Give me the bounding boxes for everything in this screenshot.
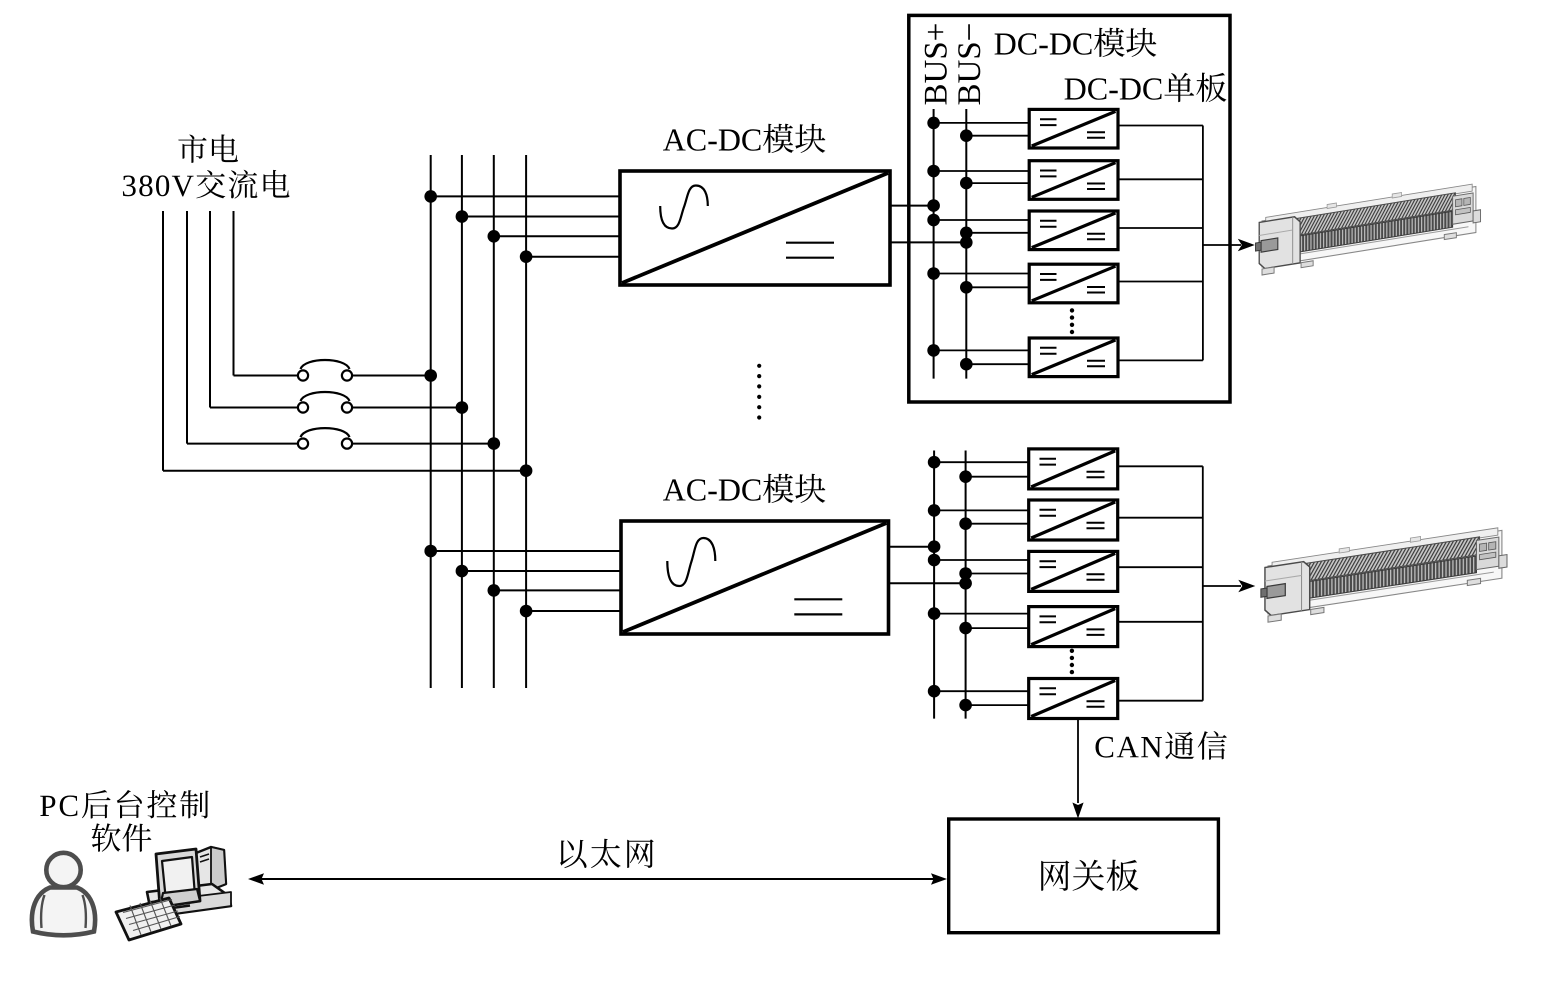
wire breaker 2 to bus B (352, 407, 462, 409)
wire AC-DC 1 output - to BUS- (890, 241, 966, 243)
wire BUS- to DC-DC unit 4 (bottom group) (966, 627, 1029, 629)
wire source L1 vertical (162, 211, 164, 471)
wire L4 to breaker 1 (234, 375, 298, 377)
wire AC-DC 2 output - to BUS- (889, 582, 966, 584)
DC-DC unit 3 (bottom group) box (1029, 551, 1118, 591)
DC-DC unit 4 (bottom group) box (1029, 607, 1118, 647)
arrowhead CAN into gateway (1072, 803, 1083, 819)
ellipsis more units bottom group (1070, 649, 1074, 675)
wire L2 to breaker 3 (187, 443, 298, 445)
wire BUS+ to DC-DC unit 1 (top group) (934, 122, 1030, 124)
DC-DC unit 1 (top group) box (1029, 109, 1118, 148)
junction BUS- unit 2 top group (960, 177, 973, 190)
wire source L3 vertical (209, 211, 211, 408)
wire breaker 1 to bus A (352, 375, 431, 377)
wire BUS- to DC-DC unit 1 (top group) (966, 135, 1029, 137)
bus N vertical (525, 155, 527, 688)
junction BUS+ AC-DC 1 feed (927, 199, 940, 212)
AC-DC module 1 AC sine symbol (660, 186, 708, 229)
wire BUS- to DC-DC unit 5 (bottom group) (966, 704, 1029, 706)
label DC-DC board (1065, 73, 1227, 103)
DC-DC unit 3 (top group) box (1029, 211, 1118, 250)
junction BUS+ unit 3 top group (927, 214, 940, 227)
junction BUS+ unit 1 bottom group (928, 456, 941, 469)
load bank device 2 (3D) (1261, 523, 1507, 623)
AC-DC module 1 DC bars (786, 243, 834, 258)
wire DC-DC unit 4 output (bottom group) (1118, 621, 1203, 623)
wire source L4 vertical (233, 211, 235, 376)
junction BUS+ unit 3 bottom group (928, 554, 941, 567)
DC-DC unit 2 (bottom group) box (1029, 500, 1118, 540)
wire BUS+ to DC-DC unit 3 (top group) (934, 219, 1030, 221)
junction BUS- unit 5 top group (960, 358, 973, 371)
junction BUS- unit 4 bottom group (959, 622, 972, 635)
AC-DC module 1 diagonal (622, 173, 888, 283)
AC-DC module 2 diagonal (623, 523, 887, 632)
junction bus C feed 1 (488, 230, 501, 243)
wire source L2 vertical (186, 211, 188, 444)
junction BUS- unit 2 bottom group (959, 517, 972, 530)
label AC-DC module 2 (663, 474, 825, 503)
ethernet wire (260, 878, 938, 880)
CAN wire down (1077, 719, 1079, 803)
junction bus B feed 2 (456, 565, 469, 578)
wire BUS- to DC-DC unit 2 (top group) (966, 182, 1029, 184)
junction bus C / breaker 3 (488, 437, 501, 450)
junction BUS+ unit 4 bottom group (928, 607, 941, 620)
wire BUS+ to DC-DC unit 5 (top group) (934, 349, 1030, 351)
junction BUS+ unit 5 top group (927, 344, 940, 357)
wire bus A to AC-DC 1 input 1 (431, 195, 620, 197)
breaker QF3 (298, 428, 352, 449)
wire bus B to AC-DC 1 input 2 (462, 216, 620, 218)
bus A vertical (430, 155, 432, 688)
junction BUS- unit 3 bottom group (959, 567, 972, 580)
junction BUS- unit 1 bottom group (959, 470, 972, 483)
label CAN bus (1096, 731, 1227, 760)
output wire to load bank 1 (1203, 244, 1241, 246)
computer icon (116, 847, 231, 940)
wire BUS- to DC-DC unit 5 (top group) (966, 363, 1029, 365)
junction bus A feed 2 (424, 545, 437, 558)
wire bus N to AC-DC 1 input 4 (526, 256, 620, 258)
wire BUS- to DC-DC unit 2 (bottom group) (966, 523, 1029, 525)
output wire to load bank 2 (1203, 585, 1241, 587)
label BUS+ (925, 24, 947, 104)
wire BUS- to DC-DC unit 1 (bottom group) (966, 476, 1029, 478)
junction bus B feed 1 (456, 210, 469, 223)
DC-DC module outer box (909, 15, 1230, 402)
junction BUS- AC-DC 2 feed (959, 577, 972, 590)
DC-DC unit 2 (top group) box (1029, 161, 1118, 200)
wire DC-DC unit 2 output (top group) (1118, 178, 1203, 180)
junction BUS- unit 3 top group (960, 227, 973, 240)
junction bus N feed 1 (520, 250, 533, 263)
AC-DC module 2 AC sine symbol (667, 538, 715, 586)
label AC-DC module 1 (663, 124, 825, 153)
wire DC-DC unit 3 output (bottom group) (1118, 566, 1203, 568)
DC-DC unit 1 (bottom group) box (1029, 449, 1118, 489)
wire BUS- to DC-DC unit 3 (bottom group) (966, 573, 1029, 575)
label gateway board (1041, 860, 1138, 891)
DC-DC unit 5 (bottom group) box (1029, 679, 1118, 719)
junction BUS- unit 1 top group (960, 129, 973, 142)
wire DC-DC unit 4 output (top group) (1118, 281, 1203, 283)
wire BUS+ to DC-DC unit 2 (top group) (934, 170, 1030, 172)
wire bus C to AC-DC 2 input 3 (494, 589, 621, 591)
junction bus N / L1 wire (520, 464, 533, 477)
junction BUS+ unit 5 bottom group (928, 685, 941, 698)
label ethernet (560, 839, 654, 868)
DC output collector (bottom group) (1202, 466, 1204, 700)
junction BUS- unit 5 bottom group (959, 699, 972, 712)
ellipsis more units top group (1070, 308, 1074, 334)
wire bus B to AC-DC 2 input 2 (462, 570, 621, 572)
wire AC-DC 1 output + to BUS+ (890, 205, 934, 207)
junction bus N feed 2 (520, 605, 533, 618)
wire L1 to bus N (163, 470, 526, 472)
wire BUS- to DC-DC unit 4 (top group) (966, 286, 1029, 288)
label BUS- (958, 24, 980, 104)
junction bus A feed 1 (424, 190, 437, 203)
junction BUS- unit 4 top group (960, 281, 973, 294)
junction BUS+ unit 2 bottom group (928, 504, 941, 517)
wire DC-DC unit 5 output (bottom group) (1118, 700, 1203, 702)
wire bus C to AC-DC 1 input 3 (494, 235, 620, 237)
wire BUS+ to DC-DC unit 2 (bottom group) (934, 509, 1029, 511)
DC output collector (top group) (1202, 126, 1204, 361)
BUS+ line top group (933, 109, 935, 379)
junction BUS- AC-DC 1 feed (960, 236, 973, 249)
junction bus B / breaker 2 (456, 401, 469, 414)
arrowhead to load bank 1 (1238, 239, 1255, 251)
label DC-DC module (995, 28, 1157, 57)
label PC control line 1 (40, 790, 208, 819)
junction bus C feed 2 (488, 584, 501, 597)
wire DC-DC unit 5 output (top group) (1118, 359, 1203, 361)
wire DC-DC unit 1 output (bottom group) (1118, 465, 1203, 467)
junction BUS+ unit 4 top group (927, 267, 940, 280)
arrowhead to load bank 2 (1238, 580, 1255, 592)
bus C vertical (493, 155, 495, 688)
breaker QF2 (298, 392, 352, 413)
DC-DC unit 5 (top group) box (1029, 338, 1118, 377)
wire BUS+ to DC-DC unit 5 (bottom group) (934, 690, 1029, 692)
DC-DC unit 4 (top group) box (1029, 264, 1118, 303)
wire L3 to breaker 2 (210, 407, 298, 409)
BUS- line top group (965, 109, 967, 379)
label mains line 2 (123, 170, 290, 199)
wire BUS- to DC-DC unit 3 (top group) (966, 232, 1029, 234)
wire BUS+ to DC-DC unit 3 (bottom group) (934, 559, 1029, 561)
wire breaker 3 to bus C (352, 443, 494, 445)
wire bus N to AC-DC 2 input 4 (526, 610, 621, 612)
person icon (32, 853, 95, 935)
gateway board box (949, 819, 1219, 933)
wire DC-DC unit 1 output (top group) (1118, 125, 1203, 127)
wire DC-DC unit 2 output (bottom group) (1118, 517, 1203, 519)
junction bus A / breaker 1 (424, 369, 437, 382)
wire AC-DC 2 output + to BUS+ (889, 546, 935, 548)
load bank device 1 (3D) (1255, 180, 1480, 276)
wire BUS+ to DC-DC unit 4 (top group) (934, 273, 1030, 275)
arrowhead ethernet left (248, 873, 264, 885)
BUS- line bottom group (965, 451, 967, 719)
arrowhead ethernet right (931, 873, 947, 885)
junction BUS+ AC-DC 2 feed (928, 540, 941, 553)
wire bus A to AC-DC 2 input 1 (431, 550, 621, 552)
wire BUS+ to DC-DC unit 1 (bottom group) (934, 461, 1029, 463)
bus B vertical (461, 155, 463, 688)
wire BUS+ to DC-DC unit 4 (bottom group) (934, 613, 1029, 615)
AC-DC module 2 DC bars (794, 599, 842, 614)
wire DC-DC unit 3 output (top group) (1118, 227, 1203, 229)
AC-DC module 2 box (621, 521, 889, 634)
junction BUS+ unit 1 top group (927, 117, 940, 130)
label mains line 1 (178, 134, 238, 163)
junction BUS+ unit 2 top group (927, 165, 940, 178)
label PC control line 2 (92, 823, 152, 851)
BUS+ line bottom group (933, 451, 935, 719)
ellipsis more AC-DC modules (757, 364, 761, 420)
AC-DC module 1 box (620, 171, 890, 285)
breaker QF1 (298, 360, 352, 381)
